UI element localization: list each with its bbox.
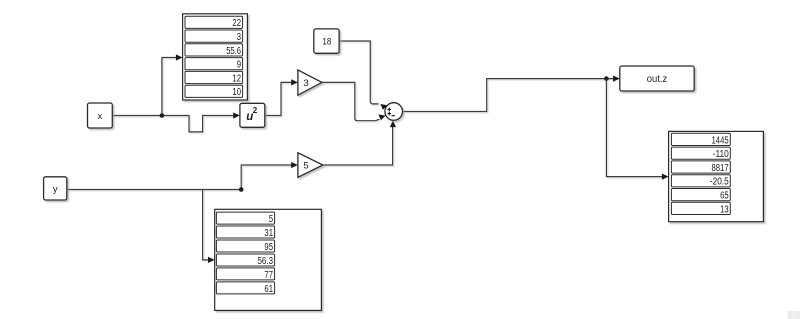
node junction on x wire (160, 113, 165, 118)
wire sum to out.z (403, 79, 614, 112)
arrowhead into u2 (233, 112, 240, 118)
svg-text:out.z: out.z (647, 74, 668, 85)
source block x (88, 103, 113, 128)
display block Display2 outer (669, 131, 764, 221)
node junction before out.z (604, 76, 609, 81)
svg-text:2: 2 (253, 106, 258, 115)
arrowhead into Display2 (662, 174, 669, 180)
Display1 row 22 (185, 16, 243, 29)
Display2 row 65 (671, 189, 730, 202)
Display2 row 8817 (671, 161, 730, 174)
svg-text:77: 77 (264, 270, 273, 281)
svg-text:-110: -110 (713, 149, 729, 160)
Display2 row -110 (671, 147, 730, 160)
svg-text:1445: 1445 (712, 135, 730, 146)
math function block u^2 (240, 103, 265, 127)
arrowhead into gain3 (291, 79, 298, 85)
svg-text:31: 31 (264, 228, 273, 239)
Display1 row 9 (185, 58, 243, 71)
svg-text:9: 9 (237, 60, 241, 71)
constant block 18 (314, 29, 339, 53)
wire gain3 to sum port2 (322, 82, 380, 120)
svg-text:-20.5: -20.5 (710, 177, 729, 188)
Display1 row 10 (185, 85, 243, 98)
svg-text:5: 5 (269, 214, 274, 225)
svg-text:55.6: 55.6 (226, 46, 241, 57)
sum sign plus 2 (388, 112, 392, 116)
svg-text:56.3: 56.3 (258, 256, 274, 267)
faint watermark bottom right (788, 311, 800, 319)
Display2 row 13 (671, 202, 730, 215)
Display3 row 5 (216, 212, 274, 225)
Display3 row 31 (216, 226, 274, 239)
Display1 row 3 (185, 30, 243, 43)
svg-text:3: 3 (237, 32, 242, 43)
svg-text:5: 5 (303, 160, 308, 171)
svg-text:12: 12 (232, 73, 241, 84)
sum sign minus (392, 115, 395, 117)
wire branch down to Display3 (203, 190, 209, 260)
Display3 row 95 (216, 240, 274, 253)
svg-text:10: 10 (232, 87, 241, 98)
source block y (44, 177, 67, 200)
wire u2 to gain3 (265, 82, 292, 115)
svg-text:61: 61 (264, 284, 273, 295)
Display3 row 77 (216, 268, 274, 281)
arrowhead into Display1 (176, 54, 183, 60)
Display2 row -20.5 (671, 175, 730, 188)
Display1 row 55.6 (185, 44, 243, 57)
arrowhead into sum port1 (380, 104, 387, 110)
arrowhead into sum port2 (378, 115, 385, 121)
wire constant18 to sum port1 (339, 41, 378, 104)
node junction on y wire (239, 187, 244, 192)
svg-text:8817: 8817 (712, 163, 729, 174)
Display3 row 61 (216, 282, 274, 295)
svg-text:y: y (53, 184, 58, 195)
gain block 5 (298, 153, 323, 178)
arrowhead into gain5 (291, 162, 298, 168)
Display2 row 1445 (671, 133, 730, 146)
arrowhead into Display3 (208, 257, 215, 263)
wire gain5 to sum port3 (323, 127, 393, 165)
wire branch down to Display2 (606, 79, 662, 177)
svg-text:95: 95 (264, 242, 273, 253)
sum sign plus 1 (388, 108, 392, 112)
Display1 row 12 (185, 71, 243, 84)
Display3 row 56.3 (216, 254, 274, 267)
svg-text:18: 18 (322, 36, 331, 47)
display block Display1 outer (183, 14, 248, 100)
display block Display3 outer (215, 209, 322, 310)
arrowhead into out.z (613, 76, 620, 82)
sum block ++- (385, 103, 403, 121)
svg-text:22: 22 (232, 18, 241, 29)
outport block out.z (620, 66, 694, 91)
svg-text:13: 13 (720, 204, 729, 215)
svg-text:3: 3 (303, 78, 308, 89)
svg-text:x: x (98, 111, 103, 122)
arrowhead into sum port3 (390, 120, 396, 127)
wire y to junction (67, 189, 241, 191)
svg-text:65: 65 (720, 191, 729, 202)
wire junction up to gain5 (241, 165, 291, 190)
gain block 3 (298, 70, 322, 95)
wire from x to u2 with notch (112, 116, 233, 132)
wire branch from x-junction up to Display1 (162, 58, 177, 116)
